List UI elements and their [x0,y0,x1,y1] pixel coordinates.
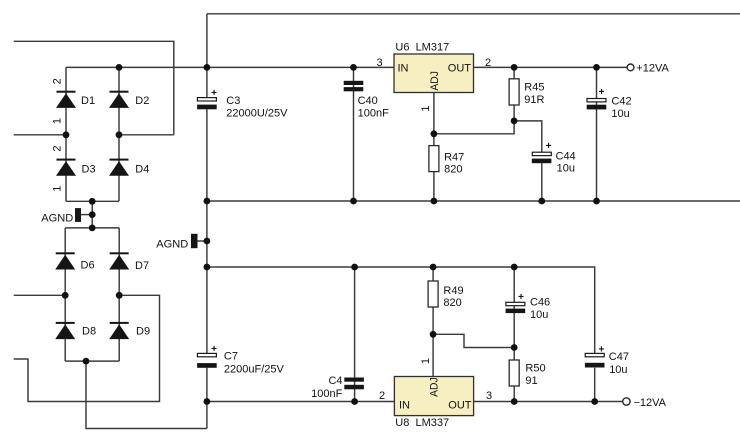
wire C42 branch [596,67,598,201]
wire bridge2 right column [118,228,120,361]
svg-text:D7: D7 [135,260,149,272]
svg-text:C46: C46 [530,297,550,309]
svg-text:3: 3 [377,57,383,69]
svg-text:OUT: OUT [448,63,472,75]
svg-text:10u: 10u [609,364,627,376]
svg-text:C3: C3 [226,95,240,107]
svg-text:R50: R50 [525,363,545,375]
capacitor C46 [506,292,526,313]
capacitor C40 [344,81,364,91]
wire bridge2 left column [64,228,66,361]
svg-text:D8: D8 [82,326,96,338]
wire C3 to C7 vertical [206,109,208,353]
svg-text:2200uF/25V: 2200uF/25V [224,363,285,375]
wire R45 to C44 link [514,121,542,152]
wire C47 bottom [594,368,596,402]
wire bridge2 bottom drop and bypass [86,361,207,428]
wire C3 top vertical [206,14,208,98]
svg-text:3: 3 [486,390,492,402]
wire R49 and U8 ADJ branch [432,267,434,377]
svg-text:+12VA: +12VA [636,63,669,75]
ground AGND2 symbol [191,234,198,248]
svg-text:100nF: 100nF [358,107,389,119]
svg-text:R47: R47 [444,151,464,163]
svg-text:D1: D1 [81,95,95,107]
svg-text:IN: IN [398,63,409,75]
capacitor C4 [344,378,364,390]
wire bottom negative rail to U8 IN [207,401,394,403]
capacitor C3 [197,88,217,109]
svg-text:AGND: AGND [41,212,73,224]
svg-text:+: + [546,141,552,152]
svg-text:10u: 10u [557,162,575,174]
svg-text:C47: C47 [609,351,629,363]
svg-text:−12VA: −12VA [634,397,667,409]
ground AGND1 symbol [75,208,81,222]
wire AGND2 tee [198,240,207,242]
svg-text:10u: 10u [611,108,629,120]
capacitor C47 [585,345,605,368]
svg-text:+: + [211,88,217,99]
svg-text:+: + [518,292,524,303]
svg-text:AGND: AGND [156,239,188,251]
svg-text:U6 LM317: U6 LM317 [395,42,449,54]
diode D9 [109,322,129,339]
svg-text:D4: D4 [135,164,149,176]
svg-text:C40: C40 [358,95,378,107]
wire C40 branch [353,67,355,201]
svg-text:OUT: OUT [448,400,472,412]
wire C7 bottom vertical [206,368,208,429]
svg-text:ADJ: ADJ [429,377,441,397]
wire bridge1 bottom [66,200,119,202]
svg-text:1: 1 [52,186,64,192]
diode D8 [55,322,75,339]
svg-text:1: 1 [52,118,64,124]
wire U8 OUT row [474,401,624,403]
svg-text:R45: R45 [524,82,544,94]
wire bridge1 right column [118,67,120,201]
wire AGND1 tee [81,214,93,216]
svg-text:+: + [598,345,604,356]
capacitor C44 [532,141,552,163]
svg-text:D3: D3 [82,164,96,176]
svg-text:R49: R49 [443,285,463,297]
svg-text:91R: 91R [524,94,544,106]
diode D6 [55,252,75,269]
svg-text:2: 2 [52,145,64,151]
node -12VA terminal [623,398,630,405]
svg-text:2: 2 [379,390,385,402]
wire C4 branch [354,267,356,402]
wire bridge1 left column [65,67,67,201]
svg-text:820: 820 [443,297,461,309]
svg-text:10u: 10u [530,309,548,321]
svg-text:1: 1 [420,358,432,364]
svg-text:820: 820 [444,163,462,175]
wire C46 R50 branch [513,267,515,402]
capacitor C42 [587,87,607,109]
resistor R50 [509,360,519,386]
resistor R45 [509,79,519,105]
wire R45 to ADJ link [434,121,514,134]
wire U6 OUT row [474,66,628,68]
svg-text:100nF: 100nF [311,388,342,400]
wire R45 branch [513,67,515,121]
wire U8 ADJ step link [433,334,514,347]
svg-text:91: 91 [525,375,537,387]
wire C44 bottom [541,163,543,201]
svg-text:U8 LM337: U8 LM337 [395,417,449,429]
svg-text:IN: IN [399,399,410,411]
capacitor C7 [197,344,217,368]
diode D2 [109,91,129,108]
wire bridge2 top [65,227,119,229]
diode D4 [109,159,129,176]
resistor R49 [428,281,438,307]
wire bridge2 bottom [65,360,119,362]
svg-text:2: 2 [485,57,491,69]
resistor R47 [429,146,439,172]
svg-text:C7: C7 [224,351,238,363]
op-amp U6 LM317 regulator box [394,54,474,93]
diode D7 [109,252,129,269]
wire bottom input upper stub [14,294,65,296]
wire top input upper [14,41,174,135]
svg-text:+: + [599,87,605,98]
wire bottom input lower route [14,295,160,401]
diode D1 [56,91,76,108]
wire top input lower stub [14,134,66,136]
wire positive feed to U6 IN [66,66,394,68]
node junction dots [62,64,600,405]
wire top rail [207,13,740,15]
wire U6 ADJ and R47 branch [433,93,435,202]
wire bridge1 mid right segment [119,134,174,136]
svg-text:D6: D6 [81,260,95,272]
wire AGND rail B with C47 drop [207,267,595,353]
svg-text:D9: D9 [136,326,150,338]
svg-text:22000U/25V: 22000U/25V [226,108,288,120]
wire bridge1 center drop [91,201,93,228]
node +12VA terminal [627,64,634,71]
diode D3 [56,159,76,176]
wire mid ground rail [207,200,740,202]
svg-text:2: 2 [52,78,64,84]
svg-text:C44: C44 [556,150,576,162]
svg-text:+: + [211,344,217,355]
svg-text:ADJ: ADJ [429,71,441,91]
svg-text:D2: D2 [135,95,149,107]
svg-text:C4: C4 [328,375,342,387]
svg-text:1: 1 [420,106,432,112]
svg-text:C42: C42 [611,95,631,107]
op-amp U8 LM337 regulator box [394,377,473,416]
